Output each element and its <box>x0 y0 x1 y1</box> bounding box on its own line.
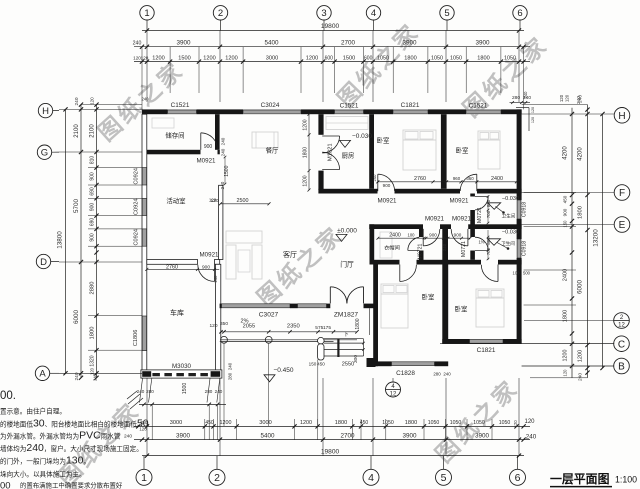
svg-text:1200: 1200 <box>306 55 318 61</box>
svg-text:00: 00 <box>0 481 11 489</box>
svg-text:D: D <box>40 257 47 268</box>
svg-text:450: 450 <box>563 195 568 203</box>
svg-text:C1828: C1828 <box>396 370 415 377</box>
svg-text:M0721: M0721 <box>461 241 467 257</box>
svg-text:4: 4 <box>368 472 374 484</box>
svg-text:C1821: C1821 <box>401 102 420 109</box>
svg-text:900: 900 <box>204 144 213 150</box>
svg-text:M1821: M1821 <box>328 143 334 161</box>
svg-text:700: 700 <box>486 247 491 255</box>
svg-text:240: 240 <box>578 95 584 103</box>
svg-text:900: 900 <box>90 233 96 242</box>
svg-text:C1821: C1821 <box>477 347 496 354</box>
svg-text:1800: 1800 <box>303 147 309 158</box>
svg-text:卧室: 卧室 <box>455 304 468 313</box>
svg-text:6: 6 <box>517 8 522 19</box>
svg-text:1: 1 <box>144 8 149 19</box>
svg-text:1800: 1800 <box>355 318 361 329</box>
svg-text:活动室: 活动室 <box>166 196 186 205</box>
svg-text:810: 810 <box>90 156 96 165</box>
svg-text:M0721: M0721 <box>477 207 483 223</box>
svg-text:12: 12 <box>618 323 625 329</box>
svg-text:1800: 1800 <box>578 206 584 219</box>
svg-text:ZM1827: ZM1827 <box>334 312 359 319</box>
svg-text:2: 2 <box>218 8 223 19</box>
svg-text:3000: 3000 <box>170 420 182 426</box>
svg-text:卫生间: 卫生间 <box>502 213 516 220</box>
svg-text:一层平面图: 一层平面图 <box>550 472 610 486</box>
svg-text:−0.030: −0.030 <box>502 196 519 202</box>
svg-text:C0924: C0924 <box>134 199 140 215</box>
svg-text:1200: 1200 <box>203 55 215 61</box>
svg-text:2055: 2055 <box>243 324 255 330</box>
svg-text:2400: 2400 <box>563 269 569 281</box>
svg-text:2100: 2100 <box>90 124 96 138</box>
svg-text:M3030: M3030 <box>172 363 191 370</box>
svg-text:1200: 1200 <box>225 55 237 61</box>
svg-text:M0921: M0921 <box>425 216 444 223</box>
svg-text:280: 280 <box>228 372 233 380</box>
svg-text:1: 1 <box>141 472 147 484</box>
svg-text:A: A <box>39 369 46 380</box>
svg-text:2550: 2550 <box>342 362 354 368</box>
svg-text:餐厅: 餐厅 <box>266 146 279 155</box>
svg-text:240: 240 <box>523 91 528 99</box>
svg-text:车库: 车库 <box>170 308 184 317</box>
svg-text:置示意。由住户自理。: 置示意。由住户自理。 <box>0 407 66 416</box>
svg-text:3900: 3900 <box>475 40 490 47</box>
svg-text:900: 900 <box>454 232 462 237</box>
svg-text:1050: 1050 <box>450 420 462 426</box>
svg-text:900: 900 <box>90 172 96 181</box>
svg-text:00.: 00. <box>0 390 16 402</box>
svg-text:690: 690 <box>90 187 96 196</box>
svg-text:1050: 1050 <box>428 420 440 426</box>
svg-text:120: 120 <box>524 419 535 425</box>
svg-text:1%: 1% <box>478 240 484 245</box>
svg-text:900: 900 <box>563 208 568 216</box>
svg-text:280: 280 <box>433 372 441 377</box>
svg-text:卫生间: 卫生间 <box>501 240 515 247</box>
svg-text:衣帽间: 衣帽间 <box>384 244 400 252</box>
svg-text:240: 240 <box>220 181 225 189</box>
svg-text:3: 3 <box>321 8 326 19</box>
svg-text:3900: 3900 <box>402 433 417 440</box>
svg-text:卧室: 卧室 <box>422 292 435 301</box>
svg-text:2760: 2760 <box>166 264 178 270</box>
svg-text:H: H <box>42 106 49 117</box>
svg-text:C3024: C3024 <box>261 102 280 109</box>
svg-text:2100: 2100 <box>74 124 80 138</box>
svg-text:6: 6 <box>515 472 521 484</box>
svg-text:C: C <box>618 339 625 350</box>
svg-text:900: 900 <box>90 203 96 212</box>
svg-text:860: 860 <box>486 237 491 245</box>
svg-text:6000: 6000 <box>577 280 584 295</box>
svg-text:2350: 2350 <box>287 324 300 330</box>
svg-text:±0.000: ±0.000 <box>337 227 357 234</box>
svg-text:2700: 2700 <box>341 40 356 47</box>
svg-text:280: 280 <box>146 389 154 394</box>
svg-text:360: 360 <box>466 176 474 181</box>
svg-text:100: 100 <box>408 232 416 237</box>
svg-text:2500: 2500 <box>237 198 249 204</box>
svg-text:卧室: 卧室 <box>377 136 390 145</box>
svg-text:6000: 6000 <box>73 310 80 325</box>
svg-text:G: G <box>41 148 48 159</box>
svg-text:1500: 1500 <box>182 383 188 395</box>
svg-text:M0921: M0921 <box>200 252 219 259</box>
svg-text:5400: 5400 <box>264 40 279 47</box>
svg-text:H: H <box>618 111 625 122</box>
svg-text:2760: 2760 <box>414 176 426 182</box>
svg-text:C3027: C3027 <box>259 312 279 319</box>
svg-text:120: 120 <box>90 97 95 105</box>
svg-text:240: 240 <box>93 373 98 381</box>
svg-text:−0.450: −0.450 <box>273 367 293 374</box>
svg-text:3900: 3900 <box>475 433 490 440</box>
svg-text:860: 860 <box>486 199 491 207</box>
svg-text:900: 900 <box>429 232 437 237</box>
svg-text:960: 960 <box>453 176 461 181</box>
svg-text:240: 240 <box>142 97 150 102</box>
svg-text:M0721: M0721 <box>418 243 424 259</box>
svg-text:1200: 1200 <box>220 420 232 426</box>
svg-text:垛向大小。以具体施工为主。: 垛向大小。以具体施工为主。 <box>0 470 86 479</box>
svg-text:1050: 1050 <box>377 55 389 61</box>
svg-text:350: 350 <box>220 321 228 327</box>
svg-text:690: 690 <box>90 218 96 227</box>
svg-text:C0924: C0924 <box>134 229 140 245</box>
svg-text:120: 120 <box>513 420 518 428</box>
svg-text:700: 700 <box>486 210 491 218</box>
svg-text:1050: 1050 <box>450 55 462 61</box>
svg-text:19800: 19800 <box>321 23 340 30</box>
svg-text:240: 240 <box>372 174 377 182</box>
svg-text:3900: 3900 <box>176 433 191 440</box>
svg-text:1500: 1500 <box>178 55 190 61</box>
svg-text:−0.030: −0.030 <box>352 133 372 140</box>
svg-text:B: B <box>618 362 625 373</box>
svg-text:240: 240 <box>443 372 451 377</box>
svg-text:5700: 5700 <box>73 199 80 214</box>
svg-text:240: 240 <box>137 389 145 394</box>
svg-text:C1521: C1521 <box>340 102 359 109</box>
svg-text:280: 280 <box>205 389 213 394</box>
svg-text:C1806: C1806 <box>133 330 139 346</box>
svg-text:240: 240 <box>526 434 537 441</box>
svg-text:F: F <box>619 188 625 199</box>
svg-text:150: 150 <box>309 362 317 367</box>
svg-text:900: 900 <box>383 183 391 188</box>
svg-text:1800: 1800 <box>335 420 347 426</box>
svg-text:1320: 1320 <box>90 355 96 366</box>
svg-text:500: 500 <box>523 271 531 276</box>
svg-text:120: 120 <box>563 369 568 377</box>
svg-text:600: 600 <box>364 55 373 61</box>
svg-text:1800: 1800 <box>405 420 417 426</box>
svg-text:900: 900 <box>202 264 210 270</box>
svg-text:1200: 1200 <box>303 175 309 186</box>
svg-text:1500: 1500 <box>343 55 355 61</box>
svg-text:M0921: M0921 <box>197 157 216 164</box>
svg-text:240: 240 <box>578 373 584 381</box>
svg-text:240: 240 <box>228 362 233 370</box>
svg-text:1200: 1200 <box>303 119 309 130</box>
svg-text:M0921: M0921 <box>450 197 469 204</box>
svg-text:5400: 5400 <box>260 433 275 440</box>
svg-text:2: 2 <box>214 472 220 484</box>
svg-text:4200: 4200 <box>563 146 569 160</box>
svg-text:C1521: C1521 <box>171 102 190 109</box>
svg-text:120: 120 <box>565 94 570 102</box>
svg-text:的置布满施工中确置要求分散布置好: 的置布满施工中确置要求分散布置好 <box>20 481 123 489</box>
svg-text:1050: 1050 <box>473 420 485 426</box>
svg-text:12: 12 <box>390 392 397 398</box>
svg-text:120: 120 <box>531 117 535 123</box>
svg-text:450: 450 <box>205 420 214 426</box>
svg-text:5: 5 <box>444 8 449 19</box>
svg-text:M0921: M0921 <box>452 216 471 223</box>
svg-text:120: 120 <box>559 94 564 102</box>
svg-text:5: 5 <box>441 472 447 484</box>
svg-text:240: 240 <box>213 275 218 283</box>
svg-text:1800: 1800 <box>90 327 96 340</box>
svg-text:1:100: 1:100 <box>615 475 637 485</box>
svg-text:175: 175 <box>323 325 331 331</box>
svg-text:1050: 1050 <box>382 420 394 426</box>
svg-text:2400: 2400 <box>491 176 503 182</box>
svg-text:1200: 1200 <box>152 55 164 61</box>
svg-text:2400: 2400 <box>389 232 401 238</box>
svg-text:1050: 1050 <box>431 55 443 61</box>
svg-text:120: 120 <box>209 323 217 329</box>
svg-text:C1521: C1521 <box>469 102 488 109</box>
svg-text:19800: 19800 <box>321 448 340 455</box>
svg-text:120: 120 <box>90 367 95 375</box>
svg-text:1800: 1800 <box>477 55 489 61</box>
svg-text:240: 240 <box>133 40 142 46</box>
svg-text:2700: 2700 <box>340 433 355 440</box>
svg-text:100: 100 <box>513 271 521 276</box>
svg-text:4: 4 <box>371 8 376 19</box>
svg-text:C0918: C0918 <box>522 241 528 256</box>
svg-text:M0921: M0921 <box>378 197 397 204</box>
svg-text:240: 240 <box>74 97 80 105</box>
svg-text:1050: 1050 <box>504 55 516 61</box>
svg-text:13800: 13800 <box>57 231 64 249</box>
svg-text:120: 120 <box>210 198 218 204</box>
svg-text:1200: 1200 <box>300 420 312 426</box>
svg-text:卧室: 卧室 <box>456 146 469 155</box>
svg-text:储存间: 储存间 <box>165 131 184 140</box>
svg-text:1200: 1200 <box>563 350 569 362</box>
svg-text:C0918: C0918 <box>522 202 528 217</box>
svg-text:E: E <box>619 220 626 231</box>
svg-text:240: 240 <box>442 243 447 251</box>
svg-text:450: 450 <box>317 362 325 367</box>
svg-text:C0924: C0924 <box>134 168 140 184</box>
svg-text:1200: 1200 <box>578 350 584 362</box>
svg-text:1050: 1050 <box>499 420 511 426</box>
svg-text:3900: 3900 <box>176 40 191 47</box>
svg-text:3900: 3900 <box>402 40 417 47</box>
svg-text:客厅: 客厅 <box>283 250 297 259</box>
svg-text:1800: 1800 <box>404 55 416 61</box>
svg-text:240: 240 <box>221 137 226 145</box>
svg-text:3000: 3000 <box>259 420 271 426</box>
svg-text:13200: 13200 <box>593 229 600 247</box>
svg-text:240: 240 <box>124 433 132 439</box>
svg-text:120: 120 <box>531 107 535 113</box>
svg-text:240: 240 <box>221 148 226 156</box>
svg-text:240: 240 <box>215 389 223 394</box>
svg-text:门厅: 门厅 <box>340 260 354 269</box>
svg-text:厨房: 厨房 <box>342 151 355 160</box>
svg-text:−0.030: −0.030 <box>502 229 519 235</box>
svg-text:4200: 4200 <box>578 147 584 161</box>
svg-text:3000: 3000 <box>266 55 278 61</box>
svg-text:2880: 2880 <box>90 282 96 295</box>
svg-text:600: 600 <box>325 55 334 61</box>
